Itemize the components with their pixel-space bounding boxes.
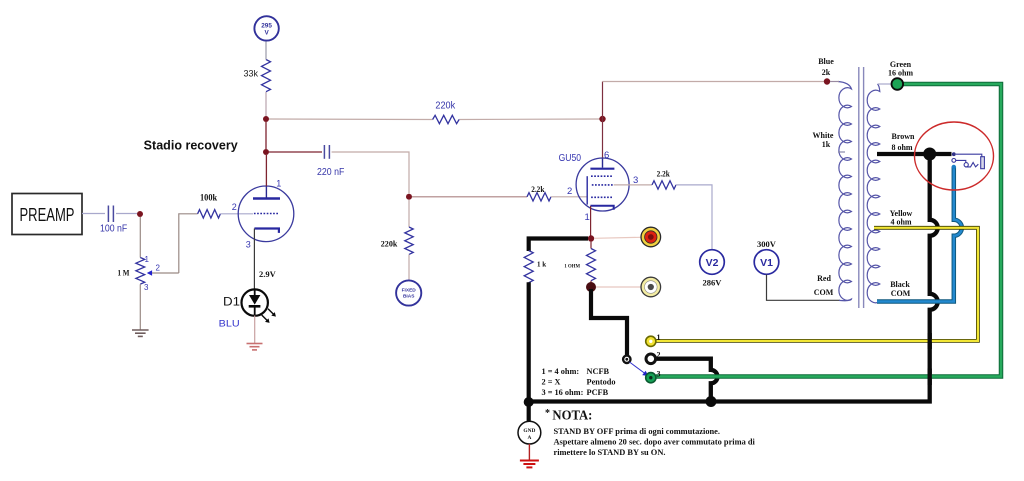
wire sense node to switch common <box>591 289 627 356</box>
node cathode <box>588 235 594 241</box>
label White 1k <box>813 131 834 149</box>
svg-text:PCFB: PCFB <box>587 388 609 397</box>
note heading <box>545 408 592 423</box>
resistor 2.2k grid <box>527 184 551 201</box>
transformer primary winding <box>838 82 852 301</box>
svg-text:3 = 16 ohm:: 3 = 16 ohm: <box>542 388 584 397</box>
svg-text:220k: 220k <box>381 239 398 249</box>
white 1k stub <box>838 151 845 153</box>
svg-text:8 ohm: 8 ohm <box>891 143 912 152</box>
svg-text:1: 1 <box>276 179 281 189</box>
wire 1ohm to node <box>590 281 592 284</box>
wire node down to 220k bias <box>408 200 410 227</box>
wire node to pot <box>139 217 141 258</box>
svg-text:COM: COM <box>891 289 911 298</box>
svg-text:33k: 33k <box>243 69 258 79</box>
svg-text:2.9V: 2.9V <box>259 269 277 279</box>
svg-text:2 = X: 2 = X <box>542 378 561 387</box>
svg-text:1: 1 <box>585 212 590 223</box>
triode pin labels <box>232 179 281 250</box>
svg-text:2: 2 <box>567 186 572 197</box>
svg-text:NOTA:: NOTA: <box>552 408 592 423</box>
node junction input <box>137 211 143 217</box>
svg-text:V: V <box>264 30 269 37</box>
meter V1 <box>754 239 779 274</box>
switch terminal 1 <box>646 333 661 346</box>
svg-text:BIAS: BIAS <box>403 294 415 300</box>
node bottom junction <box>706 396 717 407</box>
svg-text:PREAMP: PREAMP <box>20 205 75 225</box>
svg-text:1 k: 1 k <box>537 261 546 269</box>
wire node to 33k <box>265 92 267 116</box>
svg-text:16 ohm: 16 ohm <box>888 69 913 78</box>
resistor 220k feedback <box>433 101 459 124</box>
triode V1 stage circle <box>238 186 294 242</box>
wire 2.2k to V2 <box>676 185 712 250</box>
wire 2.2k to GU50 grid <box>551 196 587 198</box>
wire black horizontal bottom <box>529 399 711 403</box>
svg-text:Blue: Blue <box>818 57 834 66</box>
green dot <box>892 78 904 90</box>
svg-text:*: * <box>545 408 550 419</box>
node sense <box>586 282 596 292</box>
capacitor 220nF <box>317 145 344 178</box>
resistor 1 OHM <box>564 249 595 281</box>
wire plate up to node <box>265 186 267 198</box>
potentiometer 1M <box>118 255 179 292</box>
transformer secondary winding <box>867 84 880 303</box>
svg-text:STAND BY OFF prima di ogni com: STAND BY OFF prima di ogni commutazione. <box>554 427 721 436</box>
label Green 16 ohm <box>888 60 913 78</box>
wire pot wiper to 100k <box>179 214 198 273</box>
wire black over green crossing <box>928 369 932 386</box>
jack red test point <box>641 227 661 247</box>
svg-text:rimettere lo STAND BY su ON.: rimettere lo STAND BY su ON. <box>554 448 666 457</box>
LED D1 <box>219 289 276 329</box>
svg-text:220k: 220k <box>435 101 456 112</box>
node gnd junction <box>524 397 534 407</box>
wire blue com <box>877 167 962 302</box>
wire C1 to node <box>116 213 137 215</box>
preamp block PREAMP <box>12 194 82 235</box>
wire 100k to triode grid <box>220 213 253 215</box>
label Black COM <box>890 280 911 298</box>
ground main red <box>520 444 539 467</box>
wire terminal2 to bottom <box>656 359 718 402</box>
svg-text:GND: GND <box>523 428 535 434</box>
node GU50 plate <box>599 116 605 122</box>
wire green 16ohm <box>656 84 1001 377</box>
svg-text:NCFB: NCFB <box>587 367 610 376</box>
svg-text:White: White <box>813 131 834 140</box>
svg-text:Brown: Brown <box>892 132 916 141</box>
svg-text:Aspettare almeno 20 sec. dopo: Aspettare almeno 20 sec. dopo aver commu… <box>554 438 756 447</box>
wire 1k down thick <box>527 282 531 402</box>
feedback wire <box>269 118 433 121</box>
wire node to 1ohm <box>590 242 592 249</box>
wire 220k to fixed bias <box>408 255 410 281</box>
svg-text:1 = 4 ohm:: 1 = 4 ohm: <box>542 367 580 376</box>
node feedback <box>263 116 269 122</box>
wire 33k to supply <box>265 41 267 60</box>
switch terminal 2 <box>646 351 661 364</box>
note text <box>554 427 756 457</box>
svg-text:3: 3 <box>657 370 661 379</box>
ground pot <box>132 284 149 336</box>
ground LED <box>247 316 263 350</box>
svg-text:1: 1 <box>145 255 150 264</box>
svg-text:1k: 1k <box>822 140 831 149</box>
resistor 1k <box>524 251 546 283</box>
svg-text:300V: 300V <box>757 239 777 249</box>
supply 295V <box>254 16 278 40</box>
wire brown vertical <box>711 154 938 402</box>
resistor 100k <box>198 193 221 219</box>
node brown <box>923 148 936 161</box>
svg-text:2: 2 <box>232 202 237 212</box>
svg-text:2: 2 <box>156 264 161 273</box>
transformer core <box>859 67 864 308</box>
resistor 2.2k screen <box>652 169 676 190</box>
svg-text:GU50: GU50 <box>559 152 582 164</box>
svg-text:A: A <box>527 435 531 441</box>
switch terminal 3 <box>646 370 661 383</box>
svg-text:2k: 2k <box>822 68 831 77</box>
triode grid dotted <box>254 213 279 215</box>
jack headphone symbol <box>952 152 985 169</box>
wire to gnd circle <box>527 402 531 421</box>
wire node to 2.2k grid <box>412 196 527 198</box>
label Yellow 4 ohm <box>890 209 913 227</box>
wire cathode to LED <box>253 229 255 290</box>
svg-text:D1: D1 <box>223 295 240 309</box>
wire GU50 cathode down <box>590 206 592 236</box>
node grid GU50 <box>406 194 412 200</box>
node plate <box>263 149 269 155</box>
svg-text:BLU: BLU <box>219 318 240 329</box>
svg-text:6: 6 <box>604 150 609 161</box>
label Blue 2k <box>818 57 834 77</box>
node blue 2k tap <box>824 78 830 84</box>
wire black over yellow crossing <box>928 333 932 349</box>
svg-text:1 M: 1 M <box>118 268 130 278</box>
svg-text:3: 3 <box>246 240 251 250</box>
svg-text:2.2k: 2.2k <box>657 169 670 179</box>
pentode GU50 <box>559 150 639 223</box>
svg-text:Black: Black <box>890 280 910 289</box>
wire screen to 2.2k right <box>614 184 652 186</box>
svg-text:COM: COM <box>814 288 834 297</box>
svg-text:V2: V2 <box>706 257 719 269</box>
svg-text:286V: 286V <box>703 278 723 288</box>
green 16 tap <box>878 83 891 85</box>
switch common <box>623 356 630 363</box>
gnd A circle <box>518 421 541 444</box>
svg-text:Pentodo: Pentodo <box>587 378 616 387</box>
resistor 220k bias <box>381 227 413 254</box>
svg-text:3: 3 <box>144 283 149 292</box>
wire node up <box>265 122 267 149</box>
svg-text:1: 1 <box>657 333 661 342</box>
fixed bias source <box>396 280 421 305</box>
triode plate <box>253 197 280 200</box>
wire V1 to red com <box>767 275 841 301</box>
svg-text:4 ohm: 4 ohm <box>890 218 911 227</box>
svg-text:100k: 100k <box>200 193 217 203</box>
wire yellow 4ohm <box>656 228 978 341</box>
svg-text:295: 295 <box>261 22 272 29</box>
red ellipse highlight <box>915 122 994 190</box>
triode cathode <box>254 229 279 233</box>
capacitor 100nF <box>100 206 127 235</box>
wire node to C2 <box>269 151 322 153</box>
svg-text:FIXED: FIXED <box>402 288 417 294</box>
svg-text:1 OHM: 1 OHM <box>564 265 580 270</box>
wire C2 right and down <box>332 152 409 194</box>
label Brown 8 ohm <box>891 132 915 152</box>
wire plate node up and to transformer <box>602 82 604 159</box>
label Red COM <box>814 274 834 297</box>
wire node to white jack <box>596 286 641 288</box>
wire preamp to C1 <box>82 213 105 215</box>
jack white test point <box>641 277 661 297</box>
resistor 33k <box>243 60 270 92</box>
svg-text:2: 2 <box>657 351 661 360</box>
wire node to red jack <box>594 237 641 238</box>
wire node to 1k elbow <box>529 239 588 252</box>
svg-text:220 nF: 220 nF <box>317 167 344 178</box>
svg-text:Stadio recovery: Stadio recovery <box>144 139 238 153</box>
meter V2 <box>700 250 725 288</box>
svg-text:Red: Red <box>817 274 831 283</box>
legend switch positions <box>542 367 616 397</box>
wire brown 8ohm tap <box>877 152 952 156</box>
wire tap to winding <box>830 81 839 83</box>
switch arrow <box>630 362 649 376</box>
svg-text:2.2k: 2.2k <box>531 184 544 194</box>
svg-text:V1: V1 <box>760 257 773 269</box>
svg-text:100 nF: 100 nF <box>100 224 127 235</box>
